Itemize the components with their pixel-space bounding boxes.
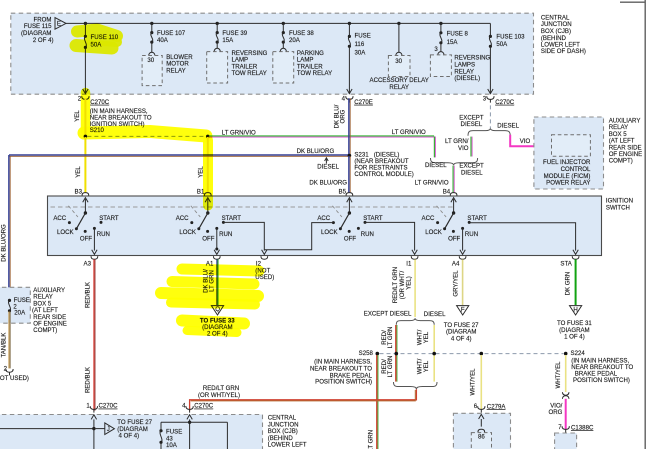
label WHT/ YEL (vertical) lower (417, 358, 431, 374)
label DK BLU/ ORG (vertical 2 lines) (333, 104, 346, 128)
bus wire from arrow E across CJB (66, 22, 490, 24)
parking lamp trailer tow relay coil pin (280, 48, 286, 51)
dashed stub below C270C pin 3 (489, 105, 491, 128)
svg-text:30: 30 (395, 58, 402, 65)
junction dot wht/yel feed to C279A (480, 352, 484, 356)
label TO FUSE 31 (DIAGRAM 1 OF 4) (557, 320, 592, 340)
svg-text:WHT/YEL: WHT/YEL (469, 368, 476, 396)
svg-text:DIESEL: DIESEL (424, 311, 446, 318)
wire bus to fuse 110 (84, 23, 86, 36)
junction on bus at fuse 116 (348, 22, 351, 25)
wire GRY/YEL from pin A4 to arrow F (462, 259, 464, 305)
svg-text:LT GRN/VIO: LT GRN/VIO (392, 129, 426, 136)
connector C270C pin 2 (78, 95, 110, 106)
label FUSE 2 20A (13, 297, 29, 317)
label FUSE 39 15A (222, 30, 247, 44)
svg-text:VIO: VIO (520, 138, 531, 145)
fuse F110 (FUSE 110 50A) (84, 35, 87, 49)
svg-text:RED/BLK: RED/BLK (84, 367, 91, 393)
note: (IN MAIN HARNESS, NEAR BREAKOUT TO BRAKE PEDAL POSITION SWITCH) (310, 358, 373, 385)
svg-text:S224: S224 (571, 350, 586, 357)
svg-text:ORG: ORG (339, 109, 346, 123)
highlighter marks (yellow) (76, 30, 259, 333)
parking lamp trailer tow relay box (273, 52, 294, 83)
label FUSE 43 10A (166, 429, 182, 449)
wire fuse 103 to connector C270C pin 3 (488, 46, 493, 93)
label CENTRAL JUNCTION BOX (CJB) (BEHIND LOWER LEFT (268, 415, 307, 449)
svg-text:WHT/YEL: WHT/YEL (555, 361, 562, 389)
wire RED/LT GRN (OR WHT/YEL) brace to connector C270C pin 4 (190, 389, 417, 410)
svg-text:VIO: VIO (458, 145, 469, 152)
feed label: FROM FUSE 115 (DIAGRAM 2 OF 4) (21, 16, 53, 43)
svg-text:C1388C: C1388C (571, 424, 594, 431)
label AUXILIARY RELAY BOX 5 (AT LEFT REAR SIDE OF ENGINE COMPT) (609, 118, 643, 165)
svg-text:ACC: ACC (53, 215, 66, 222)
wire bus to fuse 38 (282, 23, 284, 32)
wire WHT/YEL branch (diesel) (433, 325, 435, 382)
ignition switch pin A1 (206, 256, 220, 267)
svg-text:30A: 30A (355, 49, 367, 56)
label RED/LT GRN (OR WHT/YEL) (198, 385, 240, 399)
FICM power relay inner box (552, 135, 591, 157)
junction on bus at fuse 110 (84, 22, 87, 25)
wire YEL from C270C pin 2 down to splice S210 (84, 98, 86, 135)
wire DK BLU/ORG horizontal from left edge to S231 (9, 155, 349, 156)
label WHT/ YEL (vertical) upper (417, 329, 431, 345)
junction on bus at fuse 39 (216, 22, 219, 25)
ignition switch pin I1 (406, 256, 418, 267)
brace merging variants toward C270C pin 4 (394, 382, 438, 389)
note: (IN MAIN HARNESS, NEAR BREAKOUT TO IGNITION SWITCH) S210 (90, 108, 152, 134)
svg-text:116: 116 (355, 41, 365, 48)
label PARKING LAMP TRAILER TOW RELAY (297, 50, 332, 77)
wire fuse 107 to blower motor relay (151, 42, 153, 52)
label IGNITION SWITCH (606, 198, 633, 212)
svg-text:FUSE 103: FUSE 103 (496, 34, 525, 41)
svg-text:B5: B5 (339, 189, 347, 196)
svg-text:FUSE 8: FUSE 8 (447, 30, 469, 37)
svg-text:C279A: C279A (487, 403, 507, 410)
svg-text:START: START (99, 215, 119, 222)
svg-text:START: START (467, 215, 487, 222)
accessory delay relay coil pin (396, 52, 402, 55)
splice S224 junction dot (564, 352, 568, 356)
accessory delay relay box (388, 56, 410, 77)
svg-text:LOCK: LOCK (425, 229, 442, 236)
svg-text:C270C: C270C (90, 99, 110, 106)
svg-text:RED/BLK: RED/BLK (84, 282, 91, 308)
connector C270C pin 3 (483, 95, 515, 106)
fuse F43 (FUSE 43 10A) (159, 429, 162, 444)
wire bus to fuse 39 (216, 23, 218, 32)
section 2 START contact wire to pin I2 (223, 222, 267, 254)
svg-text:(IN MAIN HARNESS,: (IN MAIN HARNESS, (314, 358, 372, 365)
splice S231 junction dot (348, 154, 352, 158)
wire bus to fuse 8 (440, 23, 442, 32)
wire VIO/ORG to connector C1388C pin 7 (565, 399, 567, 430)
wire LT GRN/VIO brace to pin B4 (453, 166, 454, 193)
svg-text:3: 3 (434, 46, 438, 53)
svg-text:LOWER LEFT: LOWER LEFT (268, 442, 307, 449)
svg-text:RUN: RUN (361, 231, 374, 238)
label FUEL INJECTOR CONTROL MODULE (FICM) POWER RELAY (543, 159, 591, 186)
wire RED/LT GRN from S258 down to page edge (377, 355, 378, 449)
svg-text:START: START (222, 215, 242, 222)
wire VIO (diesel variant) to FICM power relay (510, 135, 547, 147)
brace splitting C270C pin 3 into variants (468, 128, 510, 136)
wire bus to accessory delay relay (398, 23, 400, 52)
svg-text:1 OF 4): 1 OF 4) (564, 334, 585, 341)
svg-text:LT GRN/VIO: LT GRN/VIO (415, 180, 449, 187)
wire LT GRN/VIO (except diesel variant) (471, 137, 472, 157)
svg-text:10A: 10A (166, 442, 178, 449)
ignition switch section 2 (from B1) (176, 198, 242, 243)
fuse F8 (FUSE 8 15A) (439, 31, 442, 44)
svg-text:20A: 20A (289, 37, 301, 44)
svg-text:DK BLU/ORG: DK BLU/ORG (297, 148, 335, 155)
ignition switch pin B4 (443, 189, 457, 196)
junction on bus at accessory delay relay (397, 22, 400, 25)
svg-text:YEL): YEL) (405, 276, 412, 290)
wire bus corner to fuse 103 (489, 23, 491, 36)
label DK BLU/ LT GRN (vertical 2 lines) (202, 269, 215, 293)
section 4 RUN contact wire to pin A4 (460, 228, 465, 254)
svg-text:RED/LT GRN: RED/LT GRN (367, 430, 374, 449)
in-line connector (take-out) (562, 392, 569, 399)
label DIESEL with arrow (317, 158, 339, 171)
svg-text:DIESEL: DIESEL (461, 169, 483, 176)
splice S210 junction dot (84, 135, 88, 139)
circuit arrow E (from fuse 115) (55, 18, 66, 30)
wire fuse 110 to connector C270C pin 2 (83, 47, 88, 93)
svg-text:COMPT): COMPT) (609, 158, 633, 165)
ignition switch section 4 (from B4) (422, 198, 488, 243)
connector C270E pin 4 (342, 95, 373, 106)
svg-text:C270C: C270C (99, 403, 119, 410)
svg-text:15A: 15A (447, 39, 459, 46)
label FUSE 110 50A (91, 34, 119, 48)
fuse F103 (FUSE 103 50A) (489, 35, 492, 48)
svg-text:LOCK: LOCK (57, 229, 74, 236)
svg-text:40A: 40A (157, 37, 169, 44)
svg-text:RUN: RUN (465, 231, 478, 238)
auxiliary relay box 5 (right) enclosure (534, 117, 604, 189)
svg-text:J: J (107, 426, 110, 433)
svg-text:ACC: ACC (176, 215, 189, 222)
svg-text:OFF: OFF (344, 236, 356, 243)
svg-text:RED/LT GRN: RED/LT GRN (392, 267, 399, 303)
CJB internal branch wiring (161, 422, 227, 449)
svg-text:SIDE OF DASH): SIDE OF DASH) (541, 48, 586, 55)
label FUSE 107 40A (157, 30, 186, 44)
svg-text:OFF: OFF (448, 236, 460, 243)
svg-text:POSITION SWITCH): POSITION SWITCH) (573, 377, 630, 384)
ignition switch enclosure (48, 196, 602, 256)
svg-text:DIESEL: DIESEL (425, 162, 447, 169)
svg-text:(DIESEL): (DIESEL) (454, 75, 480, 82)
label FUSE 8 15A (447, 30, 469, 45)
svg-text:TAN/BLK: TAN/BLK (0, 333, 7, 358)
label REVERSING LAMP TRAILER TOW RELAY (232, 50, 268, 77)
svg-text:(OR WHT/YEL): (OR WHT/YEL) (198, 392, 240, 399)
reversing lamp trailer tow relay box (207, 52, 228, 83)
svg-text:DK BLU/ORG: DK BLU/ORG (0, 224, 7, 262)
label FUSE 116 30A (355, 33, 371, 57)
circuit arrow J (to fuse 27) (105, 423, 115, 435)
section 3 ACC contact wire joining I2 (264, 223, 333, 250)
label FUSE 38 20A (289, 30, 314, 44)
connector C279A pin 6 (474, 403, 507, 413)
svg-text:SWITCH: SWITCH (606, 204, 630, 211)
svg-text:YEL: YEL (75, 166, 82, 178)
label RED/ LT GRN (vertical) upper (381, 327, 394, 349)
wire from C270C pin 1 into CJB (0, 415, 105, 449)
svg-text:C270C: C270C (495, 99, 515, 106)
blower motor relay coil pin (149, 52, 155, 55)
ignition switch pin B3 (75, 189, 89, 196)
wire WHT/YEL from splice bus to connector C279A pin 6 (480, 355, 482, 410)
wire RED/LT GRN branch (except diesel) (396, 325, 397, 382)
svg-text:DK GRN: DK GRN (564, 272, 571, 296)
section 1 RUN contact wire to pin A3 (92, 228, 97, 254)
mechanical coupling dashed line (51, 206, 455, 208)
dashed splice link S210 to B1 branch (87, 135, 205, 137)
wire bus to fuse 107 (151, 23, 153, 32)
label TO FUSE 33 (DIAGRAM 2 OF 4) (200, 317, 235, 337)
svg-text:B4: B4 (443, 189, 451, 196)
svg-text:B3: B3 (75, 189, 83, 196)
label LT GRN/ VIO (445, 138, 469, 152)
wire LT GRN/VIO from B1 junction to diesel brace (209, 136, 436, 158)
label RED/ LT GRN (vertical) lower (381, 356, 394, 378)
svg-text:2 OF 4): 2 OF 4) (33, 37, 54, 44)
svg-text:DIESEL: DIESEL (497, 122, 519, 129)
wire YEL from S210 down to ignition switch pin B3 (84, 137, 86, 193)
wire DK BLU/ORG left vertical to auxiliary relay box 5 (9, 155, 10, 288)
reversing lamps relay coil pin (438, 52, 444, 55)
note: S231 (DIESEL) (NEAR BREAKOUT FOR RESTRAINTS CONTROL MODULE) (354, 152, 413, 179)
Central Junction Box (bottom) enclosure (0, 415, 263, 449)
section 2 RUN contact wire to pin A1 (214, 228, 219, 254)
reversing lamps relay (diesel) box (430, 55, 451, 77)
svg-text:FUSE: FUSE (355, 33, 371, 40)
label ACCESSORY DELAY RELAY (370, 77, 429, 91)
wire fuse 8 to reversing lamps relay pin 3 (440, 43, 442, 52)
label TO FUSE 27 (DIAGRAM 4 OF 4) (117, 419, 152, 440)
svg-text:LT GRN: LT GRN (387, 356, 394, 378)
svg-text:20A: 20A (14, 310, 26, 317)
svg-text:CONTROL MODULE): CONTROL MODULE) (354, 171, 413, 178)
wire DK BLU/ORG from C270E pin 4 down to splice S231 (349, 98, 350, 155)
svg-text:TOW RELAY: TOW RELAY (297, 70, 332, 77)
svg-text:COMPT): COMPT) (33, 327, 57, 334)
page border frame (620, 0, 646, 449)
svg-text:C270E: C270E (354, 99, 373, 106)
ignition switch pin B5 (339, 189, 353, 196)
Central Junction Box (CJB) enclosure (11, 13, 534, 94)
svg-text:RELAY: RELAY (166, 67, 186, 74)
wire into relay pin 86 (478, 414, 485, 432)
connector C270C pin 4 (182, 402, 214, 412)
svg-text:1: 1 (86, 402, 90, 409)
fuse F2 (FUSE 2 20A) (8, 299, 11, 313)
wire DK BLU/ORG from S231 to ignition switch pin B5 (349, 156, 350, 193)
svg-text:ACC: ACC (422, 215, 435, 222)
svg-text:OFF: OFF (80, 236, 92, 243)
svg-text:START: START (363, 215, 383, 222)
wire fuse 116 to connector C270E pin 4 (347, 46, 352, 93)
note I2 (NOT USED) (255, 267, 274, 281)
svg-text:STA: STA (560, 260, 572, 267)
svg-text:H: H (573, 307, 577, 314)
junction on bus at fuse 107 (150, 22, 153, 25)
svg-text:LT GRN: LT GRN (387, 327, 394, 349)
wire WHT/YEL from S224 down to in-line connector (565, 355, 567, 392)
label FUSE 103 50A (496, 34, 525, 48)
svg-text:S258: S258 (359, 350, 374, 357)
ignition switch pin STA (560, 256, 579, 267)
svg-text:4 OF 4): 4 OF 4) (119, 433, 140, 440)
brace merging variants to ignition switch pin B4 (431, 158, 478, 165)
svg-text:ACC: ACC (317, 215, 330, 222)
label: CENTRAL JUNCTION BOX (CJB) (BEHIND LOWER LEFT SIDE OF DASH) (541, 15, 586, 56)
label EXCEPT DIESEL (left branch) (459, 114, 484, 128)
fuse F116 (FUSE 116 30A) (348, 35, 351, 48)
svg-text:E: E (57, 21, 61, 28)
svg-text:30: 30 (147, 57, 154, 64)
svg-text:LOCK: LOCK (321, 229, 338, 236)
relay pin 86 box (471, 433, 491, 449)
wire TAN/BLK from fuse 2 to unused pin 2 (9, 312, 10, 369)
svg-text:(NOT USED): (NOT USED) (0, 375, 29, 382)
circuit arrow H (to fuse 31) (570, 306, 582, 315)
svg-text:YEL: YEL (423, 331, 430, 343)
ignition switch section 1 (from B3) (53, 198, 119, 243)
reversing lamp trailer tow relay coil pin (214, 48, 220, 51)
svg-text:4 OF 4): 4 OF 4) (451, 335, 472, 342)
splice S258 junction dot (376, 352, 380, 356)
svg-text:F: F (461, 307, 465, 314)
label EXCEPT DIESEL (right arm) (459, 163, 484, 177)
note: (IN MAIN HARNESS, NEAR BREAKOUT TO BRAKE PEDAL POSITION SWITCH) (571, 357, 633, 384)
auxiliary relay box 5 (left) enclosure (0, 287, 30, 323)
wire DK GRN from pin STA to arrow H (575, 259, 577, 305)
label REVERSING LAMPS RELAY (DIESEL) (454, 55, 490, 82)
svg-text:POSITION SWITCH): POSITION SWITCH) (315, 379, 372, 386)
wire bus to fuse 116 (348, 23, 350, 36)
label VIO/ ORG (549, 402, 563, 416)
brace splitting I1 into variants (396, 318, 434, 325)
svg-text:GRY/YEL: GRY/YEL (452, 270, 459, 297)
connector C1388C pin 7 (558, 424, 594, 433)
ignition switch section 3 (from B5) (317, 198, 383, 243)
svg-text:OFF: OFF (202, 236, 214, 243)
ignition switch pin I2 (256, 256, 268, 267)
label RED/LT GRN (OR WHT/ YEL) (vertical 3 lines) (392, 267, 413, 303)
svg-text:YEL: YEL (74, 110, 81, 122)
ignition switch pin A3 (84, 256, 98, 267)
wire RED/BLK from pin A3 to connector C270C pin 1 (94, 259, 95, 410)
svg-text:RELAY: RELAY (389, 84, 409, 91)
section 3 START contact wire to pin I1 (365, 222, 417, 254)
junction on bus at fuse 38 (282, 22, 285, 25)
C1388C module box (555, 433, 577, 449)
wire fuse 38 to parking lamp trailer tow relay (282, 42, 284, 48)
svg-text:ORG: ORG (549, 409, 563, 416)
dashed splice bus S258 to S224 (380, 353, 564, 355)
fuse F107 (FUSE 107 40A) (150, 31, 153, 44)
svg-text:15A: 15A (222, 37, 234, 44)
wire YEL junction down to ignition switch pin B1 (207, 137, 209, 193)
svg-text:EXCEPT DIESEL: EXCEPT DIESEL (364, 311, 412, 318)
svg-text:RUN: RUN (219, 231, 232, 238)
pin 3 of FICM power relay (542, 139, 551, 150)
fuse F38 (FUSE 38 20A) (282, 31, 285, 44)
svg-text:A4: A4 (452, 260, 460, 267)
svg-text:A3: A3 (84, 260, 92, 267)
svg-text:50A: 50A (496, 41, 508, 48)
svg-text:YEL: YEL (423, 360, 430, 372)
ignition switch pin B1 (197, 189, 211, 196)
svg-text:RUN: RUN (97, 231, 110, 238)
wire fuse 39 to reversing lamp trailer tow relay (216, 42, 218, 48)
connector C270C pin 1 (86, 402, 118, 412)
label TO FUSE 27 (DIAGRAM 4 OF 4) (444, 322, 479, 342)
svg-text:DIESEL: DIESEL (461, 121, 483, 128)
junction dot wht/yel branch (432, 352, 436, 356)
svg-text:LOCK: LOCK (179, 229, 196, 236)
C279A / relay box enclosure (453, 413, 510, 449)
blower motor relay box (142, 56, 162, 86)
wire RED/LT GRN (OR WHT/YEL) from pin I1 to variant brace (414, 259, 416, 317)
fuse F39 (FUSE 39 15A) (216, 31, 219, 44)
circuit arrow Q (to fuse 33) (211, 306, 223, 315)
ignition switch pin A4 (452, 256, 466, 267)
label BLOWER MOTOR RELAY (166, 54, 193, 75)
svg-text:I1: I1 (406, 260, 412, 267)
junction dot at B1 branch (206, 135, 210, 139)
circuit arrow F (to fuse 27) (457, 306, 469, 315)
svg-text:86: 86 (478, 434, 485, 441)
svg-text:C270C: C270C (194, 403, 214, 410)
svg-text:LT GRN/VIO: LT GRN/VIO (222, 129, 256, 136)
svg-text:POWER RELAY: POWER RELAY (546, 180, 590, 187)
svg-text:DIESEL: DIESEL (317, 164, 339, 171)
svg-text:TOW RELAY: TOW RELAY (232, 70, 267, 77)
junction dot red branch (395, 352, 399, 356)
label AUXILIARY RELAY BOX 5 (AT LEFT REAR SIDE OF ENGINE COMPT) (32, 287, 67, 334)
unused pin 2 connector (4, 365, 14, 375)
section 4 START contact wire to pin STA (469, 223, 578, 255)
junction on bus at fuse 8 (439, 22, 442, 25)
svg-text:DK BLU/ORG: DK BLU/ORG (309, 179, 347, 186)
wire DK BLU/LT GRN from pin A1 to arrow Q (217, 259, 218, 305)
wire from C270C pin 4 into CJB (187, 415, 192, 449)
